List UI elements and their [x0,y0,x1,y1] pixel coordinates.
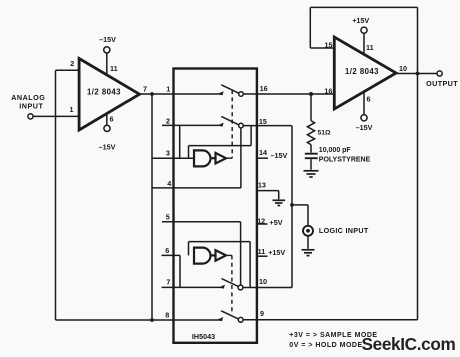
svg-text:SeekIC.com: SeekIC.com [362,334,456,354]
svg-text:2: 2 [166,116,170,125]
svg-text:+15V: +15V [352,16,369,25]
svg-text:51Ω: 51Ω [318,129,332,136]
svg-text:1/2 8043: 1/2 8043 [87,87,121,96]
svg-text:14: 14 [259,148,267,157]
svg-text:–15V: –15V [356,123,373,132]
svg-text:13: 13 [258,181,266,190]
svg-text:11: 11 [110,64,118,73]
svg-text:10: 10 [259,277,267,286]
svg-text:8: 8 [165,310,169,319]
svg-text:INPUT: INPUT [19,102,43,111]
svg-text:7: 7 [143,85,147,94]
svg-text:16: 16 [324,86,332,95]
svg-text:16: 16 [260,84,268,93]
svg-text:1: 1 [166,85,170,94]
svg-text:+15V: +15V [268,248,285,257]
svg-text:0V = > HOLD MODE: 0V = > HOLD MODE [289,342,362,349]
svg-text:10: 10 [399,64,407,73]
svg-text:15: 15 [325,40,333,49]
svg-text:2: 2 [70,59,74,68]
svg-text:11: 11 [366,43,374,52]
svg-text:IH5043: IH5043 [192,332,215,341]
svg-text:LOGIC INPUT: LOGIC INPUT [319,226,369,235]
svg-text:6: 6 [110,114,114,123]
svg-text:–15V: –15V [99,142,116,151]
svg-text:+5V: +5V [270,218,283,227]
svg-text:6: 6 [165,246,169,255]
svg-text:POLYSTYRENE: POLYSTYRENE [319,156,371,163]
svg-text:1/2 8043: 1/2 8043 [345,67,379,76]
svg-text:4: 4 [167,179,171,188]
svg-text:9: 9 [260,309,264,318]
svg-text:10,000 pF: 10,000 pF [319,147,352,154]
svg-text:12: 12 [257,217,265,226]
svg-text:–15V: –15V [271,151,288,160]
svg-text:–15V: –15V [99,35,116,44]
svg-text:7: 7 [166,277,170,286]
svg-text:11: 11 [258,247,266,256]
svg-text:5: 5 [166,213,170,222]
svg-text:3: 3 [166,148,170,157]
svg-text:15: 15 [259,117,267,126]
svg-text:1: 1 [70,105,74,114]
svg-text:OUTPUT: OUTPUT [426,79,458,88]
svg-text:6: 6 [367,94,371,103]
